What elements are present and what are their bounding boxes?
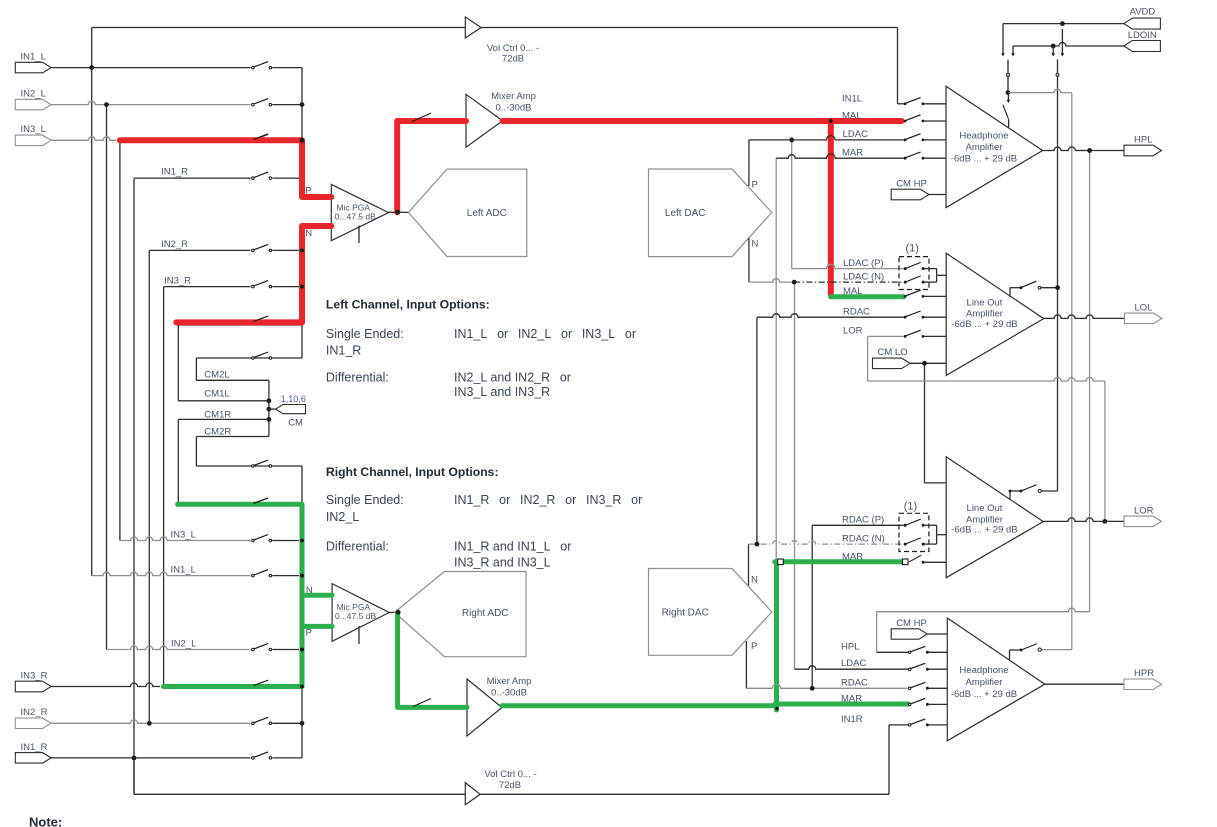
svg-text:N: N <box>751 574 758 585</box>
svg-text:AVDD: AVDD <box>1130 7 1156 18</box>
svg-text:N: N <box>305 228 312 239</box>
svg-text:Amplifier: Amplifier <box>966 142 1003 153</box>
svg-text:1,10,6: 1,10,6 <box>281 394 306 404</box>
svg-text:CM1L: CM1L <box>204 389 229 400</box>
svg-text:IN1_R: IN1_R <box>326 343 361 357</box>
svg-text:IN3_L: IN3_L <box>21 124 46 135</box>
svg-text:0..-30dB: 0..-30dB <box>496 103 532 114</box>
svg-text:IN2_R: IN2_R <box>161 239 188 250</box>
svg-text:0...47.5 dB: 0...47.5 dB <box>335 611 376 621</box>
svg-text:IN2_L: IN2_L <box>326 510 359 524</box>
svg-text:Mixer Amp: Mixer Amp <box>491 91 536 102</box>
svg-text:MAL: MAL <box>843 286 863 297</box>
svg-text:RDAC (P): RDAC (P) <box>842 515 884 526</box>
svg-text:IN1L: IN1L <box>842 94 862 105</box>
svg-text:P: P <box>751 641 757 652</box>
svg-text:CM HP: CM HP <box>896 618 927 629</box>
svg-text:Note:: Note: <box>29 815 62 827</box>
svg-text:IN3_L: IN3_L <box>171 530 196 541</box>
svg-text:LDAC (P): LDAC (P) <box>843 258 884 269</box>
svg-text:Left DAC: Left DAC <box>665 208 706 219</box>
svg-text:Vol Ctrl 0... -: Vol Ctrl 0... - <box>484 769 536 780</box>
svg-text:0..-30dB: 0..-30dB <box>491 688 527 699</box>
svg-text:LOR: LOR <box>843 325 863 336</box>
svg-text:-6dB ... + 29 dB: -6dB ... + 29 dB <box>951 525 1017 536</box>
svg-text:LDOIN: LDOIN <box>1128 30 1157 41</box>
svg-text:Single Ended:: Single Ended: <box>326 327 404 341</box>
svg-text:LDAC: LDAC <box>841 658 866 669</box>
svg-text:Headphone: Headphone <box>959 131 1008 142</box>
svg-text:(1): (1) <box>906 243 919 255</box>
svg-text:Right DAC: Right DAC <box>662 607 709 618</box>
svg-text:P: P <box>306 628 312 639</box>
svg-text:Line Out: Line Out <box>967 503 1003 514</box>
svg-text:-6dB ... + 29 dB: -6dB ... + 29 dB <box>951 154 1017 165</box>
svg-text:IN3_R: IN3_R <box>164 276 191 287</box>
svg-text:RDAC (N): RDAC (N) <box>842 534 885 545</box>
svg-text:HPR: HPR <box>1134 668 1154 679</box>
svg-text:Line Out: Line Out <box>967 298 1003 309</box>
svg-text:Right ADC: Right ADC <box>462 608 509 619</box>
svg-text:LOL: LOL <box>1135 302 1153 313</box>
svg-text:IN3_R and IN3_L: IN3_R and IN3_L <box>454 555 551 569</box>
svg-text:RDAC: RDAC <box>843 307 870 318</box>
svg-text:IN1_R: IN1_R <box>21 742 48 753</box>
svg-text:IN2_L and IN2_R or: IN2_L and IN2_R or <box>454 370 571 384</box>
svg-text:IN2_L: IN2_L <box>171 639 196 650</box>
svg-text:LDAC (N): LDAC (N) <box>843 272 884 283</box>
svg-text:Amplifier: Amplifier <box>966 309 1003 320</box>
svg-text:IN3_R: IN3_R <box>21 671 48 682</box>
svg-text:-6dB ... + 29 dB: -6dB ... + 29 dB <box>951 689 1017 700</box>
svg-text:0...47.5 dB: 0...47.5 dB <box>335 212 376 222</box>
svg-text:RDAC: RDAC <box>841 677 868 688</box>
svg-text:MAR: MAR <box>842 147 863 158</box>
svg-text:MAR: MAR <box>841 693 862 704</box>
svg-text:72dB: 72dB <box>499 780 521 791</box>
svg-text:(1): (1) <box>904 501 917 513</box>
svg-text:Differential:: Differential: <box>326 370 389 384</box>
svg-text:IN1_L: IN1_L <box>21 52 46 63</box>
svg-text:CM: CM <box>288 418 303 429</box>
svg-text:Left Channel, Input Options:: Left Channel, Input Options: <box>326 298 490 312</box>
svg-text:IN1_L: IN1_L <box>171 565 196 576</box>
svg-text:IN1_L or IN2_L or IN3_L o: IN1_L or IN2_L or IN3_L or <box>454 327 636 341</box>
svg-text:IN1R: IN1R <box>841 714 863 725</box>
svg-text:Differential:: Differential: <box>326 539 389 553</box>
svg-text:IN1_R and IN1_L or: IN1_R and IN1_L or <box>454 539 571 553</box>
svg-text:LOR: LOR <box>1134 505 1154 516</box>
svg-text:Left ADC: Left ADC <box>467 208 507 219</box>
svg-text:P: P <box>752 179 758 190</box>
svg-text:72dB: 72dB <box>502 54 524 65</box>
svg-text:Mixer Amp: Mixer Amp <box>487 676 532 687</box>
svg-text:IN3_L and IN3_R: IN3_L and IN3_R <box>454 385 550 399</box>
svg-text:IN2_L: IN2_L <box>21 89 46 100</box>
svg-text:Right Channel, Input Options:: Right Channel, Input Options: <box>326 465 499 479</box>
svg-text:IN1_R or IN2_R or IN3_R o: IN1_R or IN2_R or IN3_R or <box>454 493 642 507</box>
svg-text:LDAC: LDAC <box>843 129 868 140</box>
svg-text:CM2L: CM2L <box>204 370 229 381</box>
svg-text:CM HP: CM HP <box>896 178 927 189</box>
svg-text:CM LO: CM LO <box>878 347 908 358</box>
svg-text:Amplifier: Amplifier <box>966 677 1003 688</box>
svg-text:N: N <box>752 239 759 250</box>
svg-text:-6dB ... + 29 dB: -6dB ... + 29 dB <box>951 319 1017 330</box>
svg-text:HPL: HPL <box>841 641 859 652</box>
svg-text:HPL: HPL <box>1134 134 1152 145</box>
svg-text:MAL: MAL <box>842 111 862 122</box>
svg-text:IN1_R: IN1_R <box>161 167 188 178</box>
svg-text:Vol Ctrl 0... -: Vol Ctrl 0... - <box>487 43 539 54</box>
svg-text:Headphone: Headphone <box>959 665 1008 676</box>
svg-text:Single Ended:: Single Ended: <box>326 493 404 507</box>
svg-text:MAR: MAR <box>842 551 863 562</box>
svg-text:IN2_R: IN2_R <box>21 707 48 718</box>
